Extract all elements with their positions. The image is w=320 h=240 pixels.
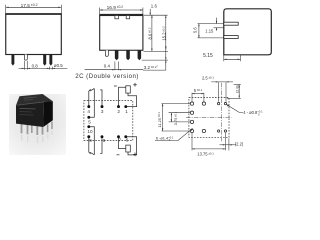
svg-text:9: 9 [89,138,92,143]
front view pin 1 [11,55,14,66]
svg-text:3: 3 [101,109,104,114]
dimension 13.75 (bottom) [192,133,226,151]
relay photo label lines [19,108,35,109]
pin 8 dot [101,135,104,138]
dimension 3.2 (pin length) [165,60,167,70]
front view pin 3 [43,55,46,66]
svg-text:1.15: 1.15 [205,28,214,33]
dimension 5 (top) [192,93,204,102]
svg-text:5.6: 5.6 [192,27,197,33]
svg-text:10: 10 [87,129,93,134]
coil 2 [126,145,131,152]
coil 2 wire to pin 6 [127,137,137,155]
pcb vertical centerline [220,83,222,142]
svg-text:5.15: 5.15 [203,53,213,59]
svg-text:7: 7 [119,137,122,142]
pin dots [87,105,127,138]
coil 1 wire to pin 1 [127,93,137,107]
relay photo top face marks [23,97,36,99]
svg-text:4: 4 [87,109,90,114]
side view pin B [115,50,119,60]
pin 3 dot [101,105,104,108]
relay photo body top face [16,94,53,105]
dimension 11.25 (left) [162,104,191,131]
end view body [224,9,271,55]
front view pin 4 [49,55,52,66]
side view width dimension 16.9 [100,8,143,16]
pcb holes 1.4mm [190,102,205,133]
svg-text:5: 5 [88,120,91,125]
leader 6-dia1.4 [155,128,193,140]
dimension 3.75 [169,113,191,122]
pin number labels [87,109,128,143]
leader 4-dia0.8 [227,105,243,113]
relay photo top ridge highlight [17,102,44,106]
dimension 5.6 (pin row pitch) [198,24,224,38]
svg-text:(2.2): (2.2) [235,142,244,147]
svg-text:0.8: 0.8 [32,63,39,68]
pole 2: pin 9 stub and NC tick [89,137,91,154]
dimension 1.6 (top right of side view) [149,9,151,15]
relay photo body right face [43,101,53,127]
side view pin A (flat coil pin) [105,50,108,56]
side view right extension lines [142,15,168,60]
relay outline (dashed box) [84,101,133,141]
pin 10 dot [87,125,90,128]
pole 1: common pin 5 path [89,89,95,118]
front view width dimension 17.5 [6,5,62,14]
svg-text:ø0.5: ø0.5 [54,63,63,68]
dimension 1.15 (pin thickness) [214,18,224,31]
coil 1 minus mark [114,85,117,87]
pole 1: pin 4 stub and NC tick [89,89,91,106]
side view pin D [138,50,142,60]
pin 7 dot [117,135,120,138]
side view top notch 2 [126,16,130,19]
relay photo pins [21,122,53,136]
side view pin C [126,50,130,60]
pole 2: pin 8 stub and NO tick [100,137,102,154]
dimension 5.15 (bottom of end view) [224,55,241,61]
dimension 15.2 (total height) [165,15,167,60]
dimension 2.5 (coil hole pitch) [211,82,233,102]
svg-text:0.4: 0.4 [104,63,111,68]
pin 1 dot [124,105,127,108]
pcb holes 0.8mm [217,102,226,132]
side view top notch 1 [115,16,119,19]
front view pin 2 (flat coil pin) [24,55,27,61]
internal connection diagram [84,83,137,156]
svg-text:2: 2 [117,109,120,114]
PCB layout [155,81,243,150]
coil 1 wire from pin 2 [119,87,126,106]
coil 2 plus mark [133,153,137,157]
relay photo pin reflections [21,131,53,143]
pole 2: movable blade [90,152,94,155]
coil 2 minus mark [117,154,120,156]
relay photo body front face [16,102,44,127]
pin 5 dot [87,116,90,119]
side view body [100,16,143,51]
pin 2 dot [117,105,120,108]
pcb horizontal centerline [186,116,232,118]
dimension (2.8) [227,85,241,99]
side view dimension 0.4 [85,62,144,71]
dimension 8.6 (body height) [151,15,153,51]
coil 1 plus mark [133,83,137,87]
pin 4 dot [87,105,90,108]
pcb outline (dashed box) [189,98,229,138]
pole 1: movable blade [90,89,94,92]
pole 1: pin 3 stub and NO tick [100,90,102,107]
side view top lid edge [99,14,143,16]
svg-text:6: 6 [126,137,129,142]
svg-text:1: 1 [125,109,128,114]
front view dimension 0.8 and dia 0.5 [19,61,68,70]
pole 2: common pin 10 path [89,127,95,155]
svg-text:(2.8): (2.8) [234,84,239,93]
end view pin bar 2 [224,36,238,39]
coil 2 wire from pin 7 [119,137,126,149]
coil 1 [126,86,131,93]
pin 9 dot [87,135,90,138]
pin 6 dot [124,135,127,138]
svg-text:8: 8 [103,138,106,143]
dimension (2.2) [220,138,237,150]
end view pin bar 1 [224,22,238,25]
front view body [6,14,62,55]
svg-text:1.6: 1.6 [151,4,158,9]
svg-text:2C (Double version): 2C (Double version) [75,73,139,80]
